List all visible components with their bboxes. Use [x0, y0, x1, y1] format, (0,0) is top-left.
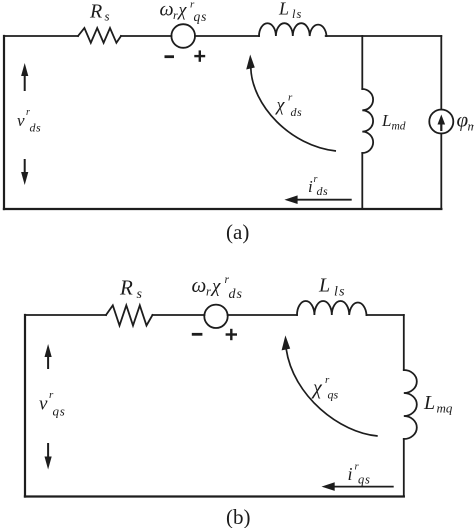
svg-text:ds: ds [291, 105, 303, 119]
current arrow i_qs (b) [322, 482, 394, 491]
minus sign of source (b) [192, 333, 203, 336]
wire junction branch upper (a) [361, 36, 363, 89]
wire right vertical lower (a) [440, 134, 442, 210]
svg-text:r: r [325, 374, 330, 386]
wire inductor to right corner (b) [367, 314, 404, 316]
voltage arrow down (a) [21, 159, 28, 185]
svg-text:r: r [206, 285, 211, 299]
flux linkage curved arrow (a) [246, 55, 336, 152]
svg-text:χ: χ [275, 95, 286, 115]
wire top-left segment circuit (b) [25, 314, 106, 316]
svg-text:L: L [423, 392, 435, 414]
wire bottom (b) [25, 495, 404, 497]
inductor Lmd (a) [362, 89, 373, 153]
svg-text:i: i [308, 177, 313, 196]
svg-text:s: s [137, 287, 143, 302]
voltage arrow up (a) [21, 63, 28, 91]
inductor Lmq (b) [404, 370, 417, 439]
label v_qs (b) [39, 389, 66, 419]
label v_ds (a) [17, 107, 41, 135]
svg-text:L: L [381, 111, 391, 130]
svg-text:ds: ds [30, 121, 42, 135]
voltage arrow down (b) [45, 443, 52, 470]
label Lls (b) [318, 275, 346, 300]
label i_ds (a) [308, 174, 328, 198]
resistor Rs (a) [78, 28, 121, 43]
wire right vertical upper (a) [440, 36, 442, 110]
label omega_r lambda_qs (a) [160, 0, 208, 24]
inductor Lls (b) [297, 301, 366, 315]
wire right vertical lower (b) [403, 439, 405, 497]
minus sign of source (a) [165, 55, 175, 58]
inductor Lls (a) [259, 23, 326, 36]
label lambda_qs (b) [311, 374, 339, 402]
svg-text:L: L [278, 0, 289, 19]
arrow inside flux source (a) [438, 115, 446, 132]
svg-text:ls: ls [334, 285, 346, 300]
label lambda_ds (a) [275, 92, 303, 120]
svg-text:md: md [392, 121, 406, 133]
dependent voltage source U2 (b) [204, 305, 227, 328]
svg-text:χ: χ [177, 0, 188, 20]
svg-text:qs: qs [328, 388, 339, 402]
label Lmq (b) [423, 392, 453, 416]
svg-text:ds: ds [317, 184, 329, 198]
label Rs (a) [89, 1, 110, 24]
flux linkage curved arrow (b) [282, 335, 378, 436]
wire inductor to right corner (a) [326, 35, 442, 37]
svg-text:r: r [26, 107, 30, 118]
plus sign of source (b) [226, 329, 237, 340]
label Lls (a) [278, 0, 302, 21]
wire left vertical (a) [3, 36, 5, 209]
label Lmd (a) [381, 111, 406, 133]
resistor Rs (b) [106, 305, 153, 325]
wire left vertical (b) [24, 315, 26, 497]
wire top-left segment circuit (a) [4, 35, 78, 37]
svg-text:qs: qs [194, 9, 208, 24]
plus sign of source (a) [194, 50, 205, 61]
svg-text:χ: χ [311, 377, 323, 399]
svg-text:r: r [288, 92, 293, 104]
svg-text:m: m [468, 119, 474, 134]
svg-text:v: v [39, 394, 48, 415]
svg-text:(b): (b) [226, 505, 251, 528]
svg-text:r: r [49, 389, 54, 401]
svg-text:R: R [89, 1, 102, 23]
svg-text:v: v [17, 111, 25, 130]
svg-text:qs: qs [53, 404, 66, 419]
wire resistor to source (b) [153, 314, 205, 316]
svg-text:r: r [225, 274, 230, 286]
dependent voltage source U1 (a) [171, 24, 195, 48]
wire source to inductor (b) [228, 314, 297, 316]
svg-text:r: r [355, 462, 360, 473]
label omega_r lambda_ds (b) [192, 273, 243, 302]
svg-text:χ: χ [210, 276, 221, 297]
svg-text:mq: mq [437, 401, 453, 416]
svg-text:ω: ω [160, 0, 174, 21]
svg-text:r: r [173, 8, 178, 22]
svg-text:s: s [105, 9, 110, 24]
voltage arrow up (b) [45, 344, 52, 369]
svg-text:ls: ls [292, 7, 302, 21]
svg-text:L: L [318, 275, 330, 297]
label phi_m (a) [457, 108, 474, 134]
svg-text:(a): (a) [226, 220, 249, 244]
current arrow i_ds (a) [284, 195, 351, 204]
wire right vertical upper (b) [403, 315, 405, 370]
flux source phi_m (a) [429, 110, 453, 134]
wire junction branch lower (a) [361, 153, 363, 209]
svg-text:R: R [119, 276, 133, 300]
svg-text:qs: qs [358, 473, 371, 487]
wire source to inductor (a) [195, 35, 259, 37]
wire bottom (a) [4, 208, 441, 210]
wire resistor to source (a) [121, 35, 171, 37]
svg-text:ω: ω [192, 273, 207, 297]
label i_qs (b) [348, 462, 371, 487]
svg-text:i: i [348, 464, 353, 484]
label Rs (b) [119, 276, 143, 303]
svg-text:ds: ds [229, 287, 243, 302]
